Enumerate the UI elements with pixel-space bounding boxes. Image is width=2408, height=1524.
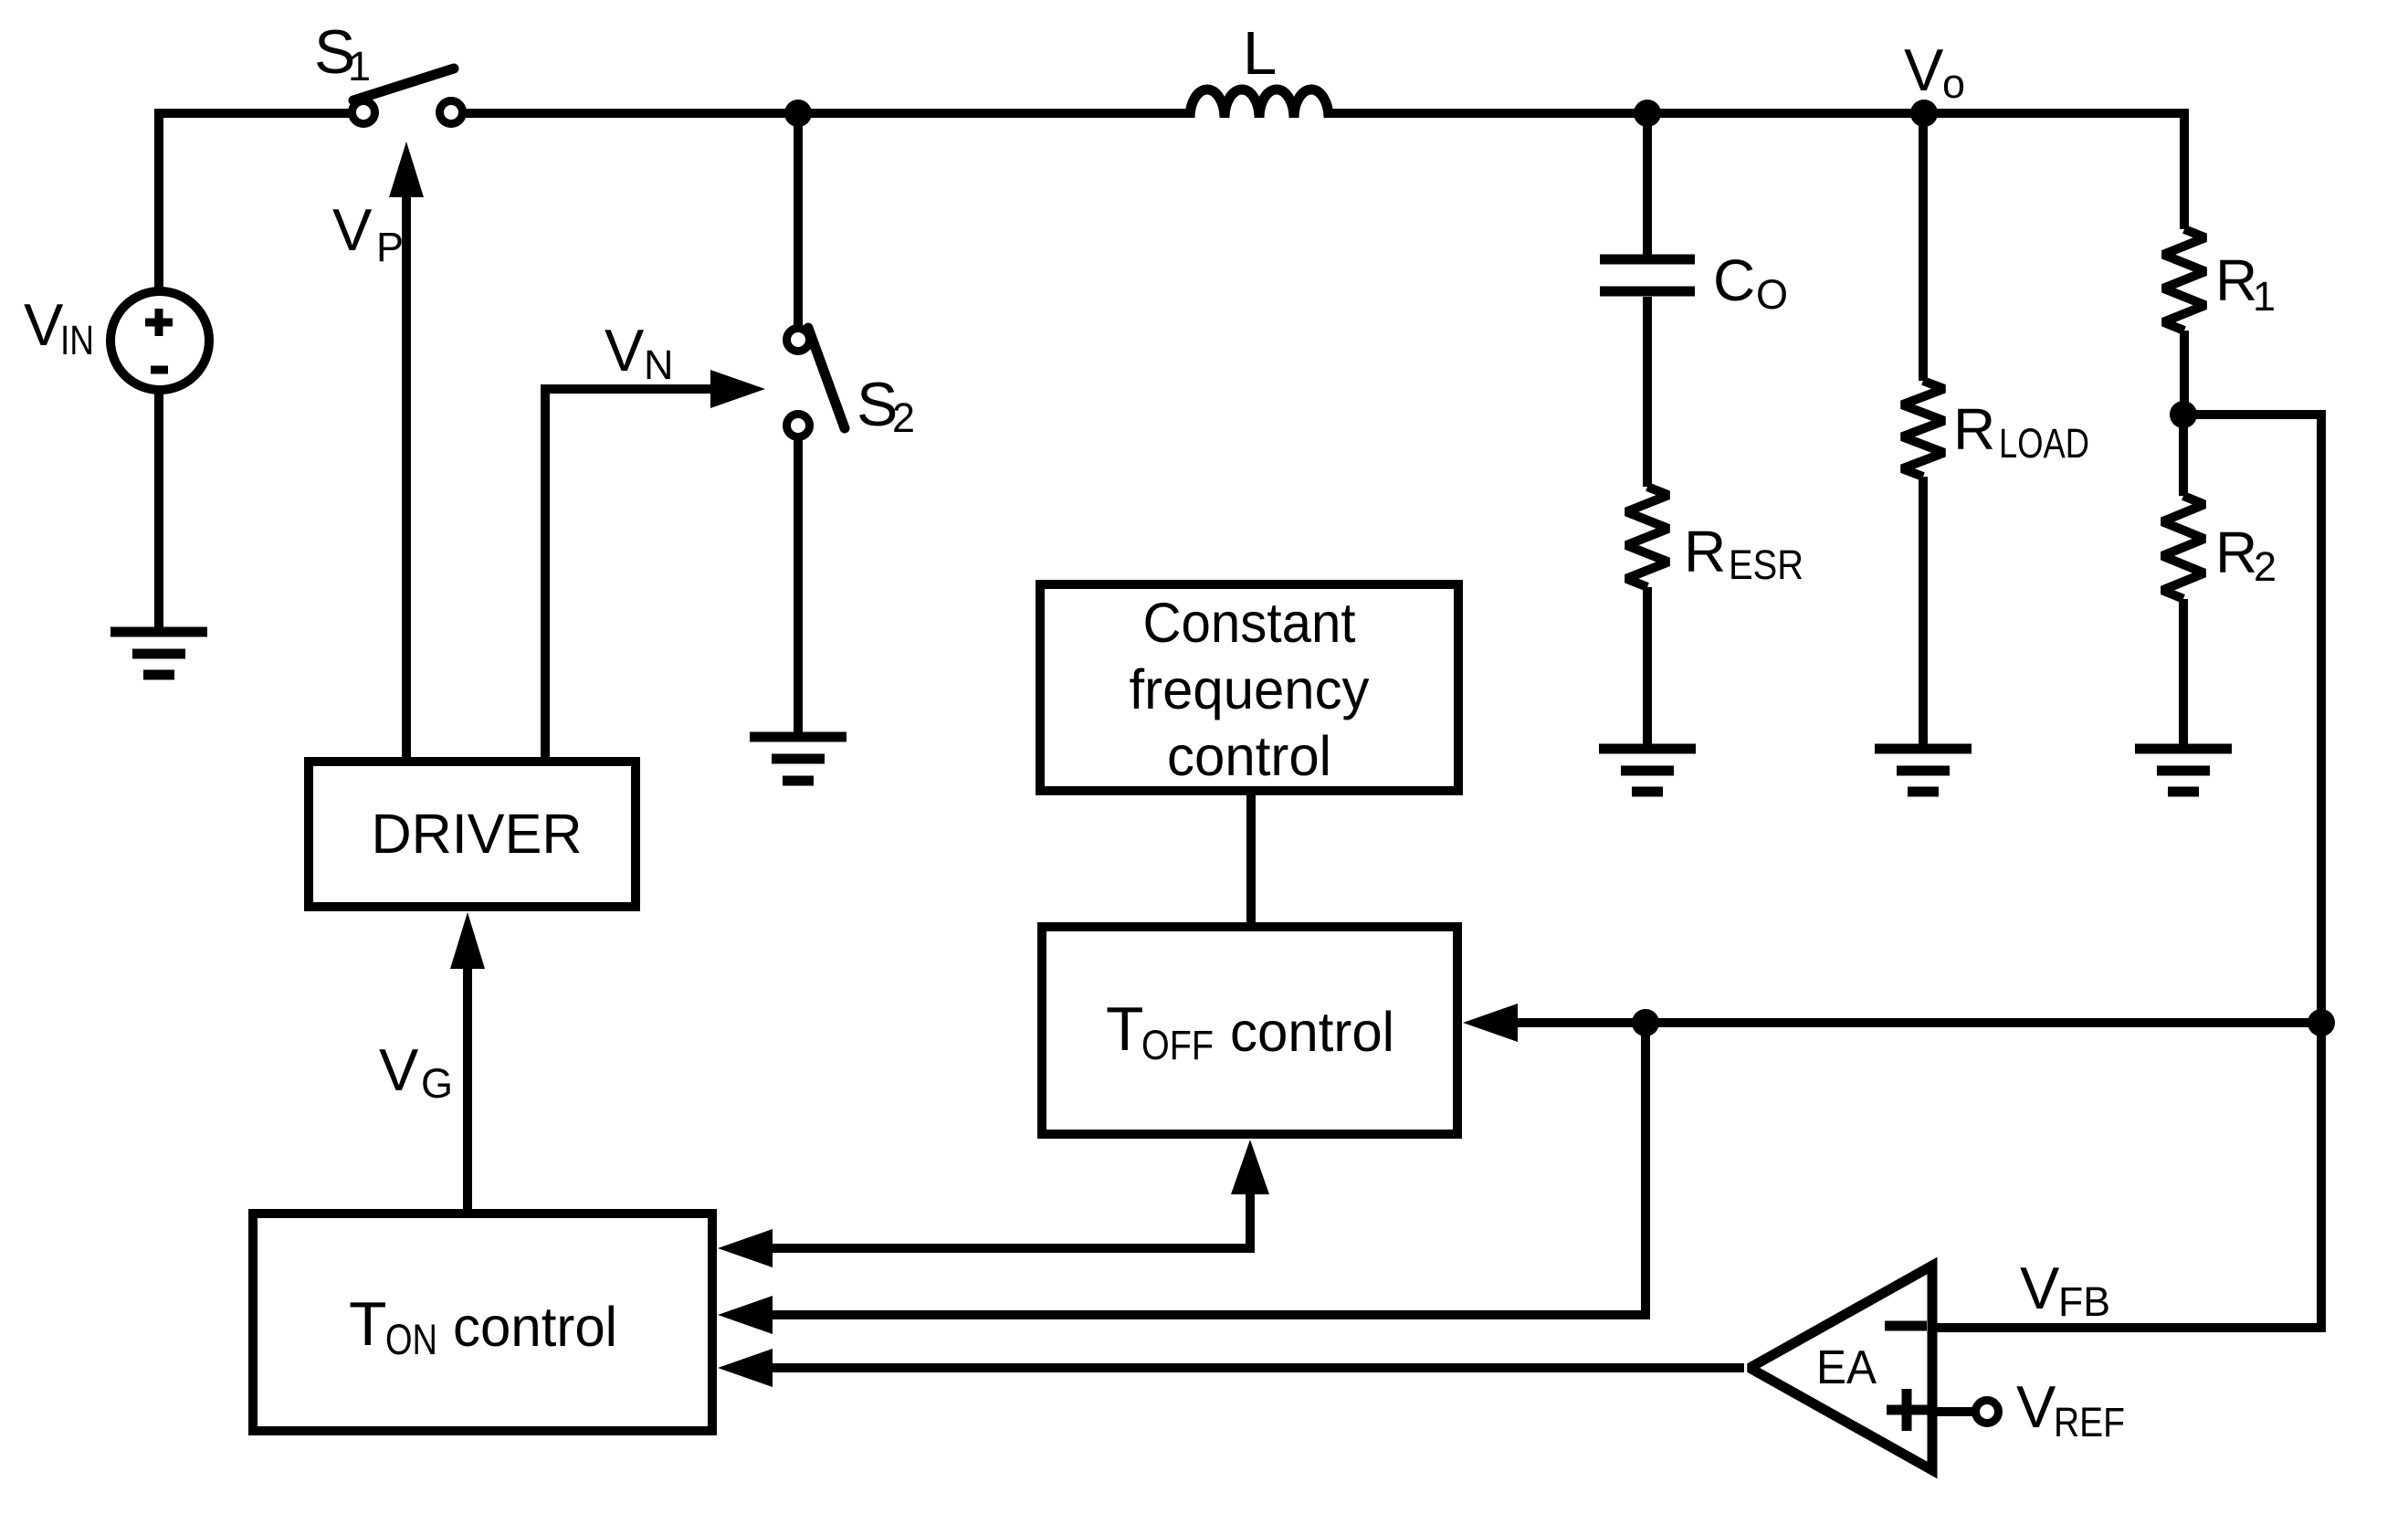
wire: top rail left segment from S1 to VIN with corner (159, 113, 350, 291)
wire: VP sense line from DRIVER to switch node (402, 194, 411, 757)
VIN plus sign (145, 309, 173, 336)
op-amp EA triangle (1750, 1266, 1932, 1470)
svg-text:control: control (453, 1296, 617, 1358)
svg-text:ESR: ESR (1729, 541, 1803, 588)
wire: top rail from inductor to R1 corner (1329, 113, 2184, 229)
svg-text:N: N (644, 342, 674, 388)
wire: R1 to R2 junction (2180, 331, 2189, 415)
svg-text:2: 2 (892, 394, 915, 441)
svg-text:REF: REF (2054, 1399, 2125, 1445)
node: junction dot on TOFF input line (right) (2308, 1009, 2335, 1036)
svg-text:ON: ON (385, 1315, 437, 1363)
svg-text:IN: IN (60, 317, 94, 363)
ground (S2) (750, 737, 846, 781)
wire: R2 bottom lead to ground (2179, 599, 2188, 749)
arrowhead: TON input 3 (718, 1349, 773, 1387)
wire: EA output line to TON third input (769, 1363, 1744, 1372)
svg-text:R: R (1684, 519, 1726, 584)
resistor RESR (1626, 487, 1668, 587)
node: Co branch junction dot (1634, 100, 1661, 127)
svg-text:LOAD: LOAD (1999, 420, 2089, 467)
wire: EA non-inverting input to VREF terminal (1937, 1407, 1975, 1416)
arrowhead: VN right arrow (710, 370, 765, 408)
svg-text:R: R (2215, 247, 2257, 313)
svg-text:OFF: OFF (1141, 1022, 1214, 1068)
resistor R1 (2163, 229, 2205, 331)
EA plus symbol (1887, 1389, 1928, 1431)
node: phase node junction dot (784, 100, 812, 127)
resistor R2 (2162, 496, 2204, 599)
wire: Co branch top lead (1643, 113, 1652, 255)
voltage source VIN (110, 291, 209, 390)
svg-text:T: T (349, 1289, 387, 1359)
ground (R2) (2135, 749, 2232, 792)
svg-text:V: V (605, 317, 645, 384)
svg-text:O: O (1756, 271, 1788, 318)
wire: feedback drop to TON second input (769, 1023, 1646, 1315)
wire: S2 bottom lead to ground (794, 440, 803, 737)
node: junction dot on TOFF input line (mid) (1632, 1009, 1659, 1036)
switch S2 (787, 328, 846, 437)
wire: VFB line from feedback corner to EA inverting input (1937, 1323, 2326, 1332)
svg-text:frequency: frequency (1130, 658, 1370, 720)
arrowhead: TON input 1 (718, 1229, 773, 1267)
svg-text:V: V (2016, 1373, 2056, 1440)
ground (RLOAD) (1875, 749, 1972, 792)
wire: RESR bottom lead to ground (1643, 587, 1652, 749)
svg-text:V: V (379, 1036, 419, 1103)
svg-text:EA: EA (1816, 1341, 1877, 1394)
switch S1 (352, 68, 463, 124)
svg-text:o: o (1942, 60, 1965, 107)
capacitor Co (1600, 259, 1695, 291)
svg-text:DRIVER: DRIVER (372, 803, 583, 865)
inductor L (1190, 89, 1329, 118)
wire: Vo down to RLOAD (1919, 113, 1928, 381)
wire: VG line from TON control to DRIVER (463, 966, 472, 1209)
svg-text:G: G (421, 1060, 453, 1107)
svg-text:FB: FB (2058, 1278, 2110, 1325)
svg-text:V: V (2020, 1255, 2060, 1321)
box DRIVER (309, 762, 636, 907)
arrowhead: VG up arrow into DRIVER (450, 912, 485, 969)
box TON control (253, 1214, 712, 1431)
svg-text:1: 1 (2253, 273, 2276, 320)
arrowhead: up arrow into TOFF control bottom (1231, 1140, 1269, 1194)
wire: constant frequency control to TOFF control (1246, 791, 1256, 927)
arrowhead: VP up arrow (389, 142, 424, 197)
svg-text:R: R (1953, 396, 1995, 462)
svg-text:1: 1 (348, 43, 371, 89)
arrowhead: left arrow into TOFF control right edge (1463, 1004, 1518, 1042)
box Constant frequency control (1040, 584, 1458, 791)
svg-text:T: T (1106, 994, 1144, 1064)
VIN minus sign (151, 366, 168, 374)
wire: VN sense line from DRIVER to S2 (545, 389, 712, 757)
wire: R1/R2 junction to feedback line corner (2183, 415, 2321, 1328)
svg-text:R: R (2215, 520, 2257, 585)
svg-text:P: P (376, 224, 404, 270)
arrowhead: TON input 2 (718, 1296, 773, 1334)
svg-text:control: control (1167, 725, 1331, 787)
svg-text:2: 2 (2254, 543, 2277, 590)
wire: R2 top lead (2179, 415, 2188, 496)
wire: top rail from S1 to inductor (465, 109, 1190, 118)
svg-text:V: V (24, 291, 64, 358)
svg-text:V: V (1904, 37, 1944, 103)
node: Vo junction dot (1910, 100, 1938, 127)
EA minus symbol (1885, 1321, 1927, 1331)
ground (RESR) (1599, 749, 1696, 792)
svg-text:V: V (332, 196, 373, 263)
wire: phase node down to S2 (794, 113, 803, 325)
wire: TOFF input line from feedback node (1512, 1018, 2321, 1027)
ground (VIN) (110, 632, 207, 675)
svg-text:control: control (1230, 1001, 1394, 1063)
box TOFF control (1042, 927, 1457, 1134)
resistor RLOAD (1902, 381, 1944, 477)
svg-text:L: L (1243, 19, 1277, 88)
svg-text:C: C (1713, 247, 1755, 313)
wire: Co to RESR (1643, 297, 1652, 487)
wire: VIN bottom lead to ground (154, 390, 163, 632)
terminal: VREF open circle (1976, 1401, 1999, 1424)
svg-text:Constant: Constant (1143, 592, 1356, 654)
wire: TON first input line with branch up to TOFF (769, 1193, 1250, 1248)
wire: RLOAD bottom lead to ground (1919, 477, 1928, 749)
node: feedback tap junction dot (2170, 401, 2197, 428)
